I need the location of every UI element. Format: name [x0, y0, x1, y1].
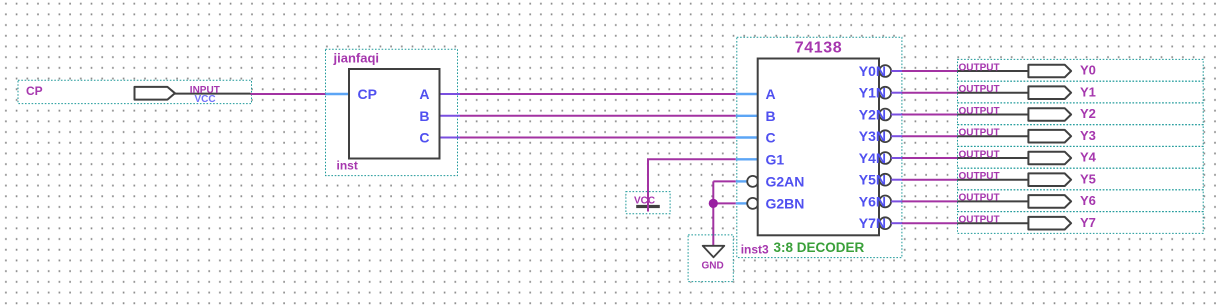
svg-text:Y7: Y7 — [1080, 215, 1096, 230]
chip U3 74138 input lead G1 — [736, 158, 758, 160]
output pin Y3 OUTPUT marker text — [959, 128, 1000, 139]
output pin Y4 name label — [1080, 150, 1097, 165]
block U1 jianfaqi selection box — [326, 49, 458, 175]
chip U3 74138 input lead G2BN — [736, 202, 747, 204]
wire net C from jianfaqi to 74138 — [460, 137, 736, 139]
output pin Y2 symbol — [1028, 108, 1071, 121]
selection region fill chip U3 74138 — [737, 37, 902, 257]
svg-text:Y2N: Y2N — [859, 107, 886, 123]
svg-text:B: B — [419, 108, 429, 124]
chip U3 74138 instance label inst3 — [741, 243, 769, 257]
power symbol VCC bar — [636, 205, 660, 208]
chip U3 74138 selection box — [737, 37, 902, 257]
svg-text:Y1N: Y1N — [859, 85, 886, 101]
input pin CP selection box — [18, 80, 252, 103]
wire net A from jianfaqi to 74138 — [460, 93, 736, 95]
ground symbol GND triangle — [703, 246, 725, 257]
block U1 jianfaqi output lead B — [439, 115, 460, 117]
ground symbol GND selection box — [688, 235, 733, 282]
svg-text:CP: CP — [26, 84, 43, 98]
block U1 jianfaqi output lead A — [439, 93, 460, 95]
output pin Y5 symbol — [1028, 173, 1071, 186]
output pin Y7 lead — [958, 222, 1030, 224]
wire net GND branch to G2AN — [713, 180, 736, 182]
chip U3 74138 output bubble Y6N — [879, 196, 891, 208]
wire net Y4 from 74138 to output pin — [902, 157, 958, 159]
ground symbol GND label — [702, 261, 724, 272]
svg-text:inst: inst — [337, 159, 358, 173]
block U1 jianfaqi title — [333, 51, 380, 66]
chip U3 74138 output lead Y3N — [891, 135, 902, 137]
chip U3 74138 output bubble Y5N — [879, 174, 891, 186]
svg-text:Y5: Y5 — [1080, 171, 1096, 186]
chip U3 74138 output lead Y0N — [891, 70, 902, 72]
block U1 jianfaqi pin name C — [419, 130, 429, 146]
wire net Y0 from 74138 to output pin — [902, 70, 958, 72]
output pin Y6 lead — [958, 200, 1030, 202]
selection region fill ground symbol GND — [688, 235, 733, 282]
output pin Y3 selection box — [958, 125, 1204, 147]
block U1 jianfaqi output lead C — [439, 137, 460, 139]
chip U3 74138 input lead B — [736, 115, 758, 117]
svg-text:Y7N: Y7N — [859, 215, 886, 231]
svg-text:3:8 DECODER: 3:8 DECODER — [774, 240, 865, 255]
output pin Y2 name label — [1080, 106, 1096, 121]
power symbol VCC label — [634, 196, 655, 207]
input pin INPUT marker text — [190, 85, 220, 96]
output pin Y7 symbol — [1028, 217, 1071, 230]
output pin Y0 name label — [1080, 63, 1096, 78]
output pin Y5 OUTPUT marker text — [959, 171, 1000, 182]
output pin Y4 symbol — [1028, 152, 1071, 165]
svg-text:OUTPUT: OUTPUT — [959, 215, 1000, 226]
svg-text:Y0N: Y0N — [859, 63, 886, 79]
selection region fill output pins Y0-Y7 — [958, 59, 1204, 234]
svg-text:Y0: Y0 — [1080, 63, 1096, 78]
power symbol VCC selection box — [626, 192, 670, 214]
chip U3 74138 output lead Y6N — [891, 200, 902, 202]
chip U3 74138 pin name G2AN — [766, 173, 805, 189]
svg-text:OUTPUT: OUTPUT — [959, 171, 1000, 182]
block U1 jianfaqi pin name A — [419, 86, 429, 102]
svg-text:OUTPUT: OUTPUT — [959, 106, 1000, 117]
wire junction on GND net — [709, 199, 718, 208]
chip U3 74138 input lead A — [736, 93, 758, 95]
output pin Y6 OUTPUT marker text — [959, 193, 1000, 204]
svg-text:VCC: VCC — [195, 94, 216, 105]
svg-text:G2BN: G2BN — [766, 195, 805, 211]
chip U3 74138 input bubble G2AN — [747, 176, 758, 187]
svg-text:Y5N: Y5N — [859, 172, 886, 188]
output pin Y7 selection box — [958, 212, 1204, 234]
wire net GND vertical segment — [712, 181, 714, 245]
input pin CP symbol — [135, 87, 175, 100]
chip U3 74138 input lead C — [736, 136, 758, 138]
svg-text:B: B — [766, 108, 776, 124]
chip U3 74138 pin name B — [766, 108, 776, 124]
chip U3 74138 output lead Y2N — [891, 114, 902, 116]
chip U3 74138 input bubble G2BN — [747, 198, 758, 209]
wire net Y5 from 74138 to output pin — [902, 179, 958, 181]
chip U3 74138 pin name G2BN — [766, 195, 805, 211]
svg-text:OUTPUT: OUTPUT — [959, 62, 1000, 73]
svg-text:OUTPUT: OUTPUT — [959, 149, 1000, 160]
input pin CP name label — [26, 84, 43, 98]
selection region fill input pin CP — [18, 80, 252, 103]
wire net Y2 from 74138 to output pin — [902, 114, 958, 116]
output pin Y0 lead — [958, 70, 1030, 72]
svg-text:74138: 74138 — [795, 40, 843, 57]
wire net Y6 from 74138 to output pin — [902, 200, 958, 202]
chip U3 74138 pin name Y2N — [859, 107, 886, 123]
input pin CP lead — [174, 93, 250, 95]
chip U3 74138 pin name C — [766, 130, 776, 146]
svg-text:Y6: Y6 — [1080, 193, 1096, 208]
svg-text:A: A — [419, 86, 429, 102]
output pin Y4 OUTPUT marker text — [959, 149, 1000, 160]
svg-text:Y3: Y3 — [1080, 128, 1096, 143]
selection region fill power symbol VCC — [626, 192, 670, 214]
wire net G1 from VCC to 74138 G1 — [648, 159, 736, 211]
chip U3 74138 output bubble Y2N — [879, 109, 891, 121]
output pin Y1 OUTPUT marker text — [959, 84, 1000, 95]
svg-text:Y2: Y2 — [1080, 106, 1096, 121]
output pin Y6 symbol — [1028, 195, 1071, 208]
selection region fill block U1 jianfaqi — [326, 49, 458, 175]
chip U3 74138 function label 3:8 DECODER — [774, 240, 865, 255]
chip U3 74138 body — [758, 59, 879, 236]
output pin Y2 lead — [958, 114, 1030, 116]
svg-text:G2AN: G2AN — [766, 173, 805, 189]
svg-text:Y1: Y1 — [1080, 84, 1096, 99]
svg-text:Y4: Y4 — [1080, 150, 1097, 165]
chip U3 74138 pin name Y6N — [859, 193, 886, 209]
wire net GND branch to G2BN — [713, 202, 736, 204]
output pin Y1 selection box — [958, 81, 1204, 103]
block U1 jianfaqi body — [349, 69, 440, 159]
output pin Y4 selection box — [958, 146, 1204, 168]
svg-text:C: C — [766, 130, 776, 146]
wire net Y3 from 74138 to output pin — [902, 135, 958, 137]
chip U3 74138 pin name Y4N — [859, 150, 886, 166]
chip U3 74138 title — [795, 40, 843, 57]
chip U3 74138 output bubble Y7N — [879, 217, 891, 229]
output pin Y3 lead — [958, 135, 1030, 137]
svg-text:GND: GND — [702, 261, 724, 272]
chip U3 74138 pin name G1 — [766, 151, 785, 167]
output pin Y6 name label — [1080, 193, 1096, 208]
output pin Y1 lead — [958, 92, 1030, 94]
wire net Y7 from 74138 to output pin — [902, 222, 958, 224]
chip U3 74138 pin name Y5N — [859, 172, 886, 188]
chip U3 74138 pin name Y1N — [859, 85, 886, 101]
chip U3 74138 output lead Y4N — [891, 157, 902, 159]
svg-text:Y4N: Y4N — [859, 150, 886, 166]
input pin VCC default-value text — [195, 94, 216, 105]
chip U3 74138 output lead Y5N — [891, 179, 902, 181]
output pin Y6 selection box — [958, 190, 1204, 212]
block U1 jianfaqi CP input lead — [326, 93, 351, 95]
svg-text:Y6N: Y6N — [859, 193, 886, 209]
output pin Y1 symbol — [1028, 86, 1071, 99]
svg-text:Y3N: Y3N — [859, 128, 886, 144]
svg-text:G1: G1 — [766, 151, 785, 167]
output pin Y0 symbol — [1028, 65, 1071, 78]
block U1 instance label inst — [337, 159, 358, 173]
chip U3 74138 pin name Y0N — [859, 63, 886, 79]
output pin Y7 name label — [1080, 215, 1096, 230]
chip U3 74138 output bubble Y0N — [879, 65, 891, 77]
block U1 jianfaqi pin name CP — [358, 86, 377, 102]
chip U3 74138 output lead Y1N — [891, 92, 902, 94]
svg-text:OUTPUT: OUTPUT — [959, 84, 1000, 95]
wire net Y1 from 74138 to output pin — [902, 92, 958, 94]
output pin Y7 OUTPUT marker text — [959, 215, 1000, 226]
output pin Y3 name label — [1080, 128, 1096, 143]
svg-text:VCC: VCC — [634, 196, 655, 207]
wire net B from jianfaqi to 74138 — [460, 115, 736, 117]
output pin Y5 selection box — [958, 168, 1204, 190]
block U1 jianfaqi pin name B — [419, 108, 429, 124]
svg-text:jianfaqi: jianfaqi — [333, 51, 380, 66]
chip U3 74138 input lead G2AN — [736, 180, 747, 182]
output pin Y5 name label — [1080, 171, 1096, 186]
chip U3 74138 output lead Y7N — [891, 222, 902, 224]
chip U3 74138 output bubble Y4N — [879, 152, 891, 164]
output pin Y4 lead — [958, 157, 1030, 159]
output pin Y5 lead — [958, 179, 1030, 181]
output pin Y2 OUTPUT marker text — [959, 106, 1000, 117]
chip U3 74138 pin name Y7N — [859, 215, 886, 231]
svg-text:OUTPUT: OUTPUT — [959, 128, 1000, 139]
chip U3 74138 pin name A — [766, 86, 776, 102]
output pin Y3 symbol — [1028, 130, 1071, 143]
output pin Y1 name label — [1080, 84, 1096, 99]
output pin Y0 selection box — [958, 59, 1204, 81]
chip U3 74138 output bubble Y1N — [879, 87, 891, 99]
svg-text:inst3: inst3 — [741, 243, 769, 257]
svg-text:C: C — [419, 130, 429, 146]
svg-text:CP: CP — [358, 86, 377, 102]
chip U3 74138 pin name Y3N — [859, 128, 886, 144]
wire net CP from input pin to jianfaqi — [251, 93, 326, 95]
chip U3 74138 output bubble Y3N — [879, 130, 891, 142]
output pin Y2 selection box — [958, 103, 1204, 125]
svg-text:A: A — [766, 86, 776, 102]
svg-text:OUTPUT: OUTPUT — [959, 193, 1000, 204]
output pin Y0 OUTPUT marker text — [959, 62, 1000, 73]
